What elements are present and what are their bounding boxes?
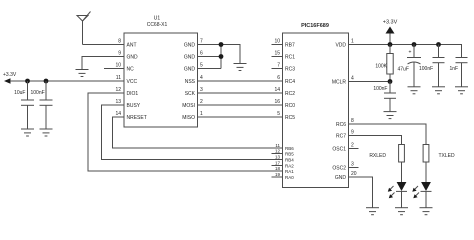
svg-text:VCC: VCC <box>127 79 138 85</box>
capacitor 10uF <box>14 81 34 129</box>
svg-text:MOSI: MOSI <box>182 103 195 109</box>
ground under 100nF left <box>40 129 53 136</box>
svg-text:CC68-X1: CC68-X1 <box>147 22 168 28</box>
ground under 47uF <box>408 87 421 94</box>
svg-text:9: 9 <box>118 51 121 57</box>
IC U2 PIC16F689 box <box>283 33 349 188</box>
svg-text:6: 6 <box>200 51 203 57</box>
wire MOSI U1 to PIC RC0 <box>198 104 283 106</box>
svg-text:+3.3V: +3.3V <box>3 72 17 78</box>
svg-text:5: 5 <box>200 63 203 69</box>
svg-text:16: 16 <box>274 99 280 105</box>
svg-text:6: 6 <box>277 75 280 81</box>
capacitor 100nF right <box>419 45 445 87</box>
resistor 100K <box>375 45 393 82</box>
svg-text:RB7: RB7 <box>285 43 295 49</box>
svg-text:RC5: RC5 <box>285 115 295 121</box>
U1 pin 13 BUSY <box>115 99 140 109</box>
U1 pin 1 MISO <box>182 111 203 121</box>
svg-text:47uF: 47uF <box>398 67 409 73</box>
U1 pin 4 NSS <box>185 75 203 85</box>
U1 pin 7 GND <box>184 39 203 49</box>
wire RC7 to RXLED resistor <box>349 136 402 145</box>
svg-text:1: 1 <box>351 39 354 45</box>
svg-text:PIC16F689: PIC16F689 <box>301 23 329 29</box>
svg-text:RC7: RC7 <box>336 134 346 140</box>
svg-text:13: 13 <box>275 154 281 159</box>
svg-text:RXLED: RXLED <box>369 153 386 159</box>
junction VDD R1 <box>388 42 393 47</box>
svg-text:1nF: 1nF <box>450 66 459 72</box>
PIC pin 3 OSC2 <box>332 162 358 172</box>
svg-text:RA1: RA1 <box>285 169 294 174</box>
svg-text:RC0: RC0 <box>285 103 295 109</box>
node +3.3V right <box>383 20 398 45</box>
svg-text:4: 4 <box>200 75 203 81</box>
ground under LED TX <box>420 208 433 215</box>
svg-text:OSC1: OSC1 <box>332 147 346 153</box>
svg-text:DIO1: DIO1 <box>127 91 139 97</box>
svg-text:18: 18 <box>275 166 281 171</box>
wire U1 GND7 to ground <box>198 45 241 64</box>
PIC pin 2 OSC1 <box>332 143 358 153</box>
ground under 1nF <box>455 87 468 94</box>
PIC pin 19 RA0 <box>272 172 295 180</box>
svg-text:RC4: RC4 <box>285 79 295 85</box>
svg-text:NSS: NSS <box>185 79 196 85</box>
PIC pin 17 RA2 <box>272 160 295 168</box>
junction dot C2 <box>44 79 49 84</box>
capacitor 47uF <box>398 45 422 87</box>
wire U1 BUSY to PIC RB4 <box>102 105 283 160</box>
junction MCLR <box>388 79 393 84</box>
PIC pin 20 GND <box>335 171 357 181</box>
svg-text:15: 15 <box>274 51 280 57</box>
U1 pin 6 GND <box>184 51 203 61</box>
resistor TXLED <box>423 145 455 163</box>
svg-text:1: 1 <box>200 111 203 117</box>
junction dot C1 <box>25 79 30 84</box>
PIC pin 12 RB5 <box>272 148 295 156</box>
svg-text:20: 20 <box>351 171 357 177</box>
svg-text:17: 17 <box>275 160 281 165</box>
svg-text:BUSY: BUSY <box>127 103 141 109</box>
svg-text:2: 2 <box>351 143 354 149</box>
svg-text:GND: GND <box>335 175 347 181</box>
U1 pin 14 NRESET <box>115 111 146 121</box>
svg-text:+: + <box>409 50 412 56</box>
svg-text:ANT: ANT <box>127 43 137 49</box>
ground under LED RX <box>395 208 408 215</box>
svg-text:RB5: RB5 <box>285 152 294 157</box>
svg-text:NRESET: NRESET <box>127 115 147 121</box>
capacitor 100nF left <box>31 81 53 129</box>
U1 pin 2 MOSI <box>182 99 203 109</box>
U1 pin 3 SCK <box>185 87 203 97</box>
svg-text:11: 11 <box>275 143 280 148</box>
ground PIC GND20 <box>366 208 379 215</box>
U1 pin 9 GND <box>118 51 138 61</box>
svg-text:GND: GND <box>184 55 196 61</box>
svg-text:8: 8 <box>118 39 121 45</box>
svg-text:GND: GND <box>184 67 196 73</box>
svg-text:VDD: VDD <box>335 43 346 49</box>
PIC pin 11 RB6 <box>275 143 294 151</box>
PIC pin 1 VDD <box>335 39 354 49</box>
U1 pin 12 DIO1 <box>115 87 138 97</box>
svg-text:MISO: MISO <box>182 115 195 121</box>
svg-text:12: 12 <box>275 148 281 153</box>
junction VDD 47uF <box>412 42 417 47</box>
svg-text:9: 9 <box>351 130 354 136</box>
svg-text:GND: GND <box>127 55 139 61</box>
U1 pin 10 NC <box>104 63 134 73</box>
svg-text:RC1: RC1 <box>285 55 295 61</box>
wire U1 GND5 <box>198 68 222 70</box>
svg-text:3: 3 <box>200 87 203 93</box>
svg-text:10uF: 10uF <box>14 90 25 96</box>
junction GND6 <box>219 54 224 59</box>
LED RX <box>396 162 407 208</box>
svg-text:RB4: RB4 <box>285 158 294 163</box>
wire MISO U1 to PIC RC5 <box>198 116 283 118</box>
svg-text:RC2: RC2 <box>285 91 295 97</box>
wire VDD rail <box>349 45 462 58</box>
svg-text:U1: U1 <box>154 16 161 22</box>
svg-text:100nF: 100nF <box>31 90 45 96</box>
junction VDD 100nF <box>436 42 441 47</box>
wire +3.3V rail to U1 VCC <box>10 80 124 82</box>
svg-text:8: 8 <box>351 118 354 124</box>
svg-text:10: 10 <box>115 63 121 69</box>
svg-text:14: 14 <box>274 87 280 93</box>
junction GND7 <box>219 42 224 47</box>
svg-text:TXLED: TXLED <box>439 153 456 159</box>
wire PIC GND20 to ground <box>349 177 373 208</box>
svg-text:10: 10 <box>274 39 280 45</box>
wire SCK U1 to PIC RC2 <box>198 92 283 94</box>
U1 pin 5 GND <box>184 63 203 73</box>
LED RX arrows <box>388 186 395 198</box>
ground under 100nF right <box>432 87 445 94</box>
wire U1 NRESET to PIC RB6 <box>113 117 283 148</box>
svg-text:NC: NC <box>127 67 135 73</box>
node +3.3V left <box>3 72 17 84</box>
wire U1 GND6 <box>198 56 222 58</box>
capacitor 100nF MCLR <box>373 82 396 112</box>
svg-text:13: 13 <box>115 99 121 105</box>
svg-text:3: 3 <box>351 162 354 168</box>
wire RC6 to TXLED resistor <box>349 124 427 145</box>
ground U1 GND9 <box>76 70 89 77</box>
PIC pin 5 RC5 <box>277 111 295 121</box>
svg-text:SCK: SCK <box>185 91 196 97</box>
LED TX <box>421 162 432 208</box>
svg-text:11: 11 <box>116 75 121 81</box>
PIC pin 7 RC3 <box>272 63 296 73</box>
svg-text:RC3: RC3 <box>285 67 295 73</box>
wire antenna to U1 ANT <box>83 44 125 46</box>
wire GND bus vertical <box>220 45 222 69</box>
PIC pin 9 RC7 <box>336 130 354 140</box>
PIC pin 14 RC2 <box>274 87 295 97</box>
svg-text:2: 2 <box>200 99 203 105</box>
ground U1 GND pins 5-7 <box>234 64 247 71</box>
svg-text:RC6: RC6 <box>336 122 346 128</box>
U1 pin 11 VCC <box>116 75 138 85</box>
IC U1 box <box>124 33 198 127</box>
svg-text:100K: 100K <box>375 64 387 70</box>
PIC pin 13 RB4 <box>275 154 294 162</box>
svg-text:7: 7 <box>200 39 203 45</box>
svg-text:4: 4 <box>351 76 354 82</box>
svg-text:RA2: RA2 <box>285 164 294 169</box>
wire NSS U1 to PIC RC4 <box>198 80 283 82</box>
resistor RXLED <box>369 145 404 163</box>
U1 pin 8 ANT <box>118 39 136 49</box>
antenna <box>77 12 91 45</box>
wire MCLR <box>349 81 391 83</box>
PIC pin 16 RC0 <box>274 99 295 109</box>
svg-text:MCLR: MCLR <box>332 80 347 86</box>
svg-text:+3.3V: +3.3V <box>383 20 398 26</box>
ground under MCLR 100nF <box>384 112 397 119</box>
wire U1 GND9 <box>82 57 124 70</box>
wire U1 DIO1 to PIC RA1 <box>88 93 283 171</box>
svg-text:19: 19 <box>275 172 281 177</box>
svg-text:5: 5 <box>277 111 280 117</box>
PIC pin 8 RC6 <box>336 118 354 128</box>
svg-text:7: 7 <box>277 63 280 69</box>
svg-text:100nF: 100nF <box>419 66 433 72</box>
PIC pin 10 RB7 <box>272 39 295 49</box>
PIC pin 6 RC4 <box>277 75 295 85</box>
svg-text:OSC2: OSC2 <box>332 166 346 172</box>
svg-text:RA0: RA0 <box>285 175 294 180</box>
PIC pin 4 MCLR <box>332 76 354 86</box>
ground under 10uF <box>21 129 34 136</box>
PIC pin 15 RC1 <box>272 51 296 61</box>
svg-text:12: 12 <box>115 87 121 93</box>
svg-text:RB6: RB6 <box>285 146 294 151</box>
svg-text:14: 14 <box>115 111 121 117</box>
LED TX arrows <box>412 186 419 198</box>
svg-text:100nF: 100nF <box>373 86 387 92</box>
svg-text:GND: GND <box>184 43 196 49</box>
PIC pin 18 RA1 <box>275 166 294 174</box>
capacitor 1nF <box>450 58 468 87</box>
